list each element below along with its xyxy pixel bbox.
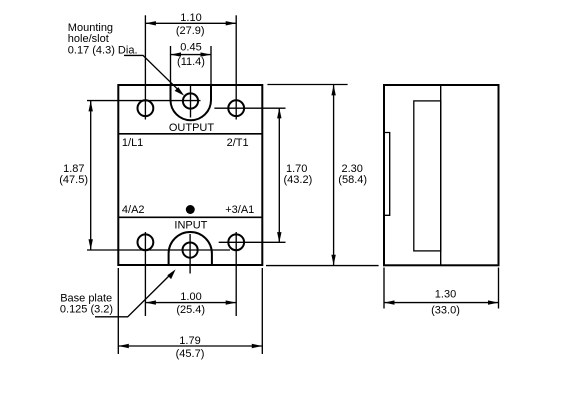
top-left terminal hole	[138, 100, 154, 116]
centerline top mounting hole vertical	[190, 86, 192, 118]
output section divider line	[118, 133, 262, 135]
svg-text:(33.0): (33.0)	[431, 304, 460, 316]
bottom mounting hole	[183, 243, 198, 258]
svg-text:1/L1: 1/L1	[122, 137, 143, 149]
indicator dot	[186, 205, 195, 214]
extension line 1.79 left	[117, 268, 119, 354]
extension line top mounting hole horizontal	[87, 100, 201, 102]
svg-text:4/A2: 4/A2	[122, 204, 145, 216]
top-right terminal hole	[228, 100, 244, 116]
centerline right top hole horizontal	[214, 107, 285, 109]
centerline left top hole	[144, 15, 146, 119]
bottom-right terminal hole	[228, 234, 244, 250]
side view body split line	[440, 85, 442, 265]
dimension 1.70 line	[278, 108, 280, 242]
dimension 1.87 line	[90, 101, 92, 250]
svg-text:(27.9): (27.9)	[176, 25, 205, 37]
svg-text:Mounting: Mounting	[68, 22, 113, 34]
dimension 2.30 line	[333, 85, 335, 266]
centerline right bottom hole horizontal	[219, 241, 286, 243]
svg-text:(45.7): (45.7)	[176, 348, 205, 360]
svg-text:1.00: 1.00	[180, 291, 201, 303]
svg-text:(43.2): (43.2)	[284, 174, 313, 186]
bottom mounting slot	[169, 232, 212, 265]
svg-text:(25.4): (25.4)	[176, 304, 205, 316]
dimension 1.30 line	[384, 302, 499, 304]
extension line 1.79 right	[261, 268, 263, 354]
extension line bottom mounting hole horizontal	[87, 249, 230, 251]
svg-text:(11.4): (11.4)	[177, 56, 205, 68]
svg-text:1.79: 1.79	[179, 335, 200, 347]
mounting note leader	[124, 55, 181, 92]
bottom-left terminal hole	[138, 234, 154, 250]
centerline bottom mounting hole vertical	[189, 234, 191, 274]
extension line 1.30 right	[498, 268, 500, 309]
side view recessed panel	[414, 101, 441, 251]
extension line 1.30 left	[383, 268, 385, 309]
input section divider line	[118, 216, 262, 218]
svg-text:+3/A1: +3/A1	[225, 204, 254, 216]
extension line 2.30 bottom	[266, 265, 379, 267]
svg-text:(47.5): (47.5)	[59, 174, 88, 186]
side view outline	[384, 85, 499, 265]
top mounting hole	[183, 93, 198, 108]
centerline left bottom hole	[144, 232, 146, 316]
side view base plate tab	[385, 133, 390, 216]
dimension 1.00 line	[145, 302, 236, 304]
extension line slot right	[210, 46, 212, 86]
top mounting slot	[171, 85, 212, 120]
svg-text:INPUT: INPUT	[174, 220, 207, 232]
extension line slot left	[170, 46, 172, 86]
base plate leader	[95, 272, 173, 316]
relay body outline (front view)	[118, 85, 262, 265]
dimension 1.10 line	[145, 22, 236, 24]
svg-text:0.17 (4.3) Dia.: 0.17 (4.3) Dia.	[68, 44, 138, 56]
svg-text:(58.4): (58.4)	[338, 174, 367, 186]
dimension 1.79 line	[118, 345, 262, 347]
svg-text:0.125 (3.2): 0.125 (3.2)	[60, 303, 113, 315]
svg-text:hole/slot: hole/slot	[68, 33, 109, 45]
extension line 2.30 top	[267, 84, 347, 86]
centerline right top hole	[235, 15, 237, 119]
svg-text:OUTPUT: OUTPUT	[169, 122, 215, 134]
svg-text:1.10: 1.10	[180, 12, 201, 24]
svg-text:2/T1: 2/T1	[227, 137, 249, 149]
svg-text:0.45: 0.45	[180, 42, 201, 54]
svg-text:1.30: 1.30	[435, 289, 456, 301]
dimension 0.45 line	[171, 54, 212, 56]
centerline right bottom hole	[235, 232, 237, 316]
